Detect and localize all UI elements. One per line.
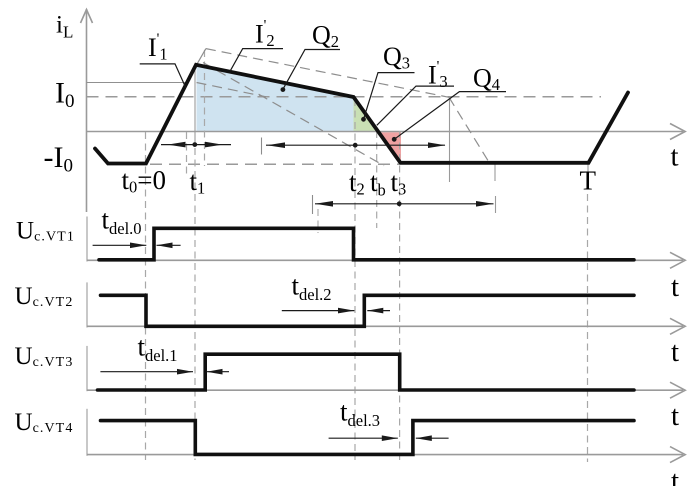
waveform VT3 (98, 354, 635, 390)
svg-text:iL: iL (56, 11, 73, 41)
svg-text:t1: t1 (190, 166, 206, 198)
gridline pre-t1 (186, 132, 188, 175)
leader I'3 (377, 86, 454, 125)
svg-text:Uc.VT2: Uc.VT2 (15, 283, 74, 310)
dimension arrow around t2 (266, 142, 446, 148)
tick at arrow3 left end (312, 195, 314, 214)
VT1 left axis stub (86, 217, 88, 262)
-I0 dashed level line (150, 163, 399, 165)
svg-text:tdel.3: tdel.3 (340, 397, 380, 431)
dimension arrows t del.2 (282, 308, 390, 314)
phantom fall D4 dashed (449, 97, 490, 163)
svg-text:tdel.1: tdel.1 (138, 332, 178, 366)
svg-text:-I0: -I0 (44, 141, 73, 177)
svg-text:t: t (671, 465, 679, 486)
svg-text:Uc.VT1: Uc.VT1 (16, 218, 75, 245)
waveform VT2 (101, 295, 635, 326)
region Q3 (green shaded charge area) (354, 98, 377, 131)
leader Q4 (392, 92, 506, 142)
svg-text:t: t (671, 400, 679, 432)
leader Q2 (281, 50, 341, 93)
gridline t2 (354, 99, 356, 460)
leader Q3 (361, 73, 414, 122)
svg-text:tdel.2: tdel.2 (292, 271, 332, 305)
region Q4 (red shaded charge area) (377, 132, 401, 162)
phantom steep D2 dashed (203, 63, 384, 166)
VT4 t-axis (87, 447, 686, 463)
gridline tb (376, 131, 378, 228)
gridline t0 (145, 132, 147, 460)
VT3 left axis stub (86, 346, 88, 391)
svg-text:I'1: I'1 (148, 31, 168, 64)
thin level line at I1 (87, 82, 187, 84)
svg-text:t: t (671, 271, 679, 303)
svg-text:I0: I0 (55, 76, 75, 112)
svg-text:tdel.0: tdel.0 (102, 205, 142, 239)
tick line at arrow3 right end (494, 162, 496, 181)
leader I'2 (230, 49, 283, 72)
phantom rise line (183, 49, 206, 89)
gridline t1 upper solid (194, 65, 196, 145)
region Q2 (blue shaded charge area) (197, 65, 354, 131)
iL vertical axis (81, 9, 93, 212)
svg-text:t0=0: t0=0 (122, 165, 167, 197)
VT1 t-axis (87, 252, 686, 268)
waveform VT1 (99, 228, 634, 259)
dimension arrow around t3 (315, 201, 494, 207)
svg-text:t: t (671, 336, 679, 368)
dimension arrows t del.3 (329, 435, 449, 441)
short gridline at 317 (317, 209, 319, 233)
VT2 left axis stub (86, 282, 88, 327)
waveform iL (95, 65, 628, 164)
svg-text:t3: t3 (391, 167, 407, 199)
phantom slope D1 dashed (206, 49, 449, 98)
leader I'1 (140, 64, 186, 88)
svg-text:I'2: I'2 (255, 18, 275, 51)
tick at arrow2 left end (261, 138, 263, 155)
svg-text:Uc.VT4: Uc.VT4 (15, 409, 74, 436)
I0 dashed level line (87, 96, 602, 98)
iL zero t-axis (87, 124, 686, 140)
VT4 left axis stub (86, 409, 88, 456)
svg-text:t: t (671, 141, 679, 173)
tick line at arrow2 right end (449, 97, 451, 182)
svg-text:Q2: Q2 (312, 21, 339, 52)
dimension arrow t0-t1 (161, 142, 231, 148)
gridline t3 (399, 131, 401, 460)
VT3 t-axis (87, 382, 686, 398)
VT2 t-axis (87, 318, 686, 334)
dimension arrows t del.0 (93, 243, 181, 249)
gridline T (587, 163, 589, 172)
waveform VT4 (101, 421, 635, 455)
svg-text:T: T (580, 166, 597, 196)
svg-text:tb: tb (370, 167, 386, 199)
phantom merge D5 dashed (197, 83, 267, 97)
svg-text:Q4: Q4 (473, 64, 500, 95)
svg-text:Q3: Q3 (383, 42, 410, 73)
svg-text:Uc.VT3: Uc.VT3 (15, 343, 74, 370)
gridline t1-prime (204, 50, 206, 166)
dimension arrows t del.1 (100, 369, 229, 375)
gridline t1 lower dashed (194, 148, 196, 460)
svg-text:t2: t2 (349, 167, 365, 199)
